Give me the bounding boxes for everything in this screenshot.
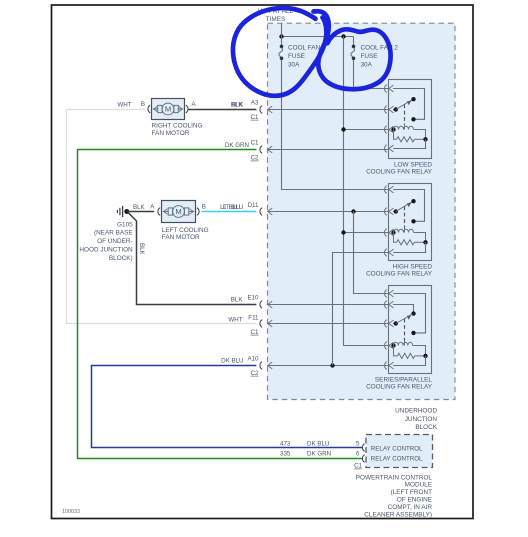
- wire DK BLU from A10 to PCM pin 5: [92, 366, 363, 448]
- relay K2 high speed: pin 4 connector and coil return: [385, 249, 387, 257]
- svg-text:F11: F11: [248, 314, 259, 321]
- relay K1 low speed: actuation dashed line: [404, 104, 406, 124]
- svg-text:FUSE: FUSE: [288, 53, 305, 60]
- svg-text:WHT: WHT: [228, 316, 242, 323]
- PCM pin 5 connector: [362, 444, 364, 452]
- svg-text:B: B: [141, 101, 145, 108]
- svg-text:LOW SPEED: LOW SPEED: [394, 161, 432, 168]
- wire: rail branch to high speed relay coil: [344, 232, 389, 234]
- wire: rail branch to low speed relay coil: [344, 129, 389, 131]
- svg-text:COMPT, IN AIR: COMPT, IN AIR: [388, 504, 433, 511]
- motor M1 right cooling fan: motor box: [152, 99, 185, 120]
- svg-text:JUNCTION: JUNCTION: [405, 416, 438, 423]
- wire: A10 to series/parallel pin 5: [268, 365, 389, 367]
- connector F11 (C1) white wire: [260, 320, 262, 328]
- svg-text:RELAY CONTROL: RELAY CONTROL: [371, 446, 423, 453]
- svg-text:SERIES/PARALLEL: SERIES/PARALLEL: [375, 376, 433, 383]
- svg-text:UNDERHOOD: UNDERHOOD: [395, 408, 437, 415]
- svg-text:RIGHT COOLING: RIGHT COOLING: [152, 123, 203, 130]
- svg-text:MODULE: MODULE: [405, 482, 432, 489]
- wire: D11 to high speed relay common: [268, 211, 389, 213]
- PCM pin 6 connector: [362, 455, 364, 463]
- connector E10 black wire: [260, 301, 262, 309]
- relay K3 series/parallel: pin 4 connector and relay coil: [385, 342, 387, 350]
- relay K3 series/parallel: pin 5 connector and coil return: [385, 362, 387, 370]
- svg-text:C1: C1: [354, 463, 362, 470]
- relay K3 series/parallel: relay box: [389, 286, 432, 374]
- connector A10 (C2) dark blue wire: [260, 362, 262, 370]
- svg-text:A10: A10: [247, 355, 259, 362]
- svg-text:DK GRN: DK GRN: [225, 142, 249, 149]
- svg-text:335: 335: [280, 451, 291, 458]
- connector A3 (C1) at junction block: [260, 106, 262, 114]
- relay K2 high speed: pin 3 connector and relay coil: [385, 229, 387, 237]
- svg-text:5: 5: [356, 441, 360, 448]
- relay K1 low speed: pin 2 connector, common and switch arm: [385, 106, 387, 114]
- relay K3 series/parallel: pin 3 connector, common and switch arm: [385, 320, 387, 328]
- bus wire (hot feed) across fuse tops: [282, 36, 354, 38]
- wire BLK right fan motor A to A3: [189, 109, 257, 111]
- wire: E10 to series/parallel pin 2: [268, 304, 389, 306]
- motor M1 right cooling fan: internal lead arrows: [153, 108, 158, 110]
- motor M1 right cooling fan: external connector halves: [148, 105, 150, 113]
- svg-text:FAN MOTOR: FAN MOTOR: [152, 130, 190, 137]
- fuse F2 COOL FAN 2 wire: [353, 37, 355, 45]
- svg-text:B: B: [202, 203, 206, 210]
- fuse F2 COOL FAN 2 FUSE 30A symbol: [352, 45, 356, 49]
- svg-text:COOLING FAN RELAY: COOLING FAN RELAY: [366, 271, 433, 278]
- svg-text:E10: E10: [247, 294, 259, 301]
- svg-text:HOOD JUNCTION: HOOD JUNCTION: [79, 247, 133, 254]
- wire: F11 to series/parallel common: [268, 323, 389, 325]
- svg-text:BLK: BLK: [133, 204, 146, 211]
- svg-text:CLEANER ASSEMBLY): CLEANER ASSEMBLY): [364, 511, 432, 518]
- underhood junction block (dashed outline): [268, 23, 456, 399]
- svg-text:473: 473: [280, 441, 291, 448]
- svg-text:OF ENGINE: OF ENGINE: [397, 497, 432, 504]
- ground G105 symbol: [124, 209, 129, 214]
- node: rail junction at low speed coil: [341, 127, 345, 131]
- powertrain control module box: [366, 435, 433, 468]
- relay K1 low speed: relay box: [389, 80, 432, 159]
- svg-text:OF UNDER-: OF UNDER-: [97, 238, 133, 245]
- svg-text:FUSE: FUSE: [361, 53, 378, 60]
- svg-text:(LEFT FRONT: (LEFT FRONT: [391, 489, 433, 496]
- node: fuse 1 feed junction: [279, 34, 283, 38]
- svg-text:RELAY CONTROL: RELAY CONTROL: [371, 456, 423, 463]
- svg-text:C2: C2: [251, 155, 259, 162]
- wire: relay coil supply rail: [344, 37, 389, 346]
- svg-text:C1: C1: [251, 329, 259, 336]
- node: coil supply rail junction: [341, 34, 345, 38]
- svg-text:BLOCK: BLOCK: [415, 424, 437, 431]
- relay K2 high speed: pin 1 connector and wire to fixed contact: [385, 186, 387, 194]
- svg-text:POWERTRAIN CONTROL: POWERTRAIN CONTROL: [356, 474, 433, 481]
- svg-text:DK BLU: DK BLU: [221, 357, 243, 364]
- wire: hot feed stub into junction block: [281, 24, 283, 37]
- node: rail junction at high speed coil: [341, 230, 345, 234]
- node: high speed coil return junction: [330, 363, 334, 367]
- motor M2 left cooling fan: external connector halves: [158, 208, 160, 216]
- relay K3 series/parallel: resistor across coil: [394, 346, 398, 356]
- relay K2 high speed: pin 2 connector, common and switch arm: [385, 208, 387, 216]
- svg-text:M: M: [175, 207, 181, 216]
- svg-text:FAN MOTOR: FAN MOTOR: [162, 234, 200, 241]
- wire DK GRN from C1/C2 to PCM pin 6: [78, 150, 363, 459]
- wire WH1 from right fan motor B terminal: [67, 110, 257, 324]
- connector D11 light blue wire: [260, 208, 262, 216]
- outer border frame: [52, 5, 474, 519]
- svg-text:A3: A3: [251, 99, 259, 106]
- svg-text:D11: D11: [248, 202, 259, 209]
- svg-text:BLK: BLK: [231, 296, 244, 303]
- svg-text:6: 6: [356, 451, 360, 458]
- fuse F1 COOL FAN 1 wire: [281, 37, 283, 45]
- fuse F1 COOL FAN 1 FUSE 30A symbol: [280, 45, 284, 49]
- svg-text:BLOCK): BLOCK): [109, 255, 133, 262]
- hand-drawn highlight loop around fuse 2: [314, 11, 391, 89]
- motor M1 right cooling fan: motor symbol M with brushes: [162, 103, 174, 115]
- svg-text:DK GRN: DK GRN: [307, 451, 331, 458]
- svg-text:TIMES: TIMES: [266, 16, 286, 23]
- relay K3 series/parallel: pin 1 connector and wire to lower fixed contact: [385, 290, 387, 298]
- svg-text:100033: 100033: [62, 509, 80, 515]
- wire BLK from G105 to left fan motor A: [127, 211, 154, 213]
- svg-text:M: M: [165, 105, 171, 114]
- wire: high speed relay coil return down to A10 wire: [333, 253, 389, 366]
- svg-text:DK BLU: DK BLU: [307, 441, 329, 448]
- svg-text:G105: G105: [117, 221, 133, 228]
- svg-text:WHT: WHT: [117, 101, 131, 108]
- svg-text:C1: C1: [251, 140, 259, 147]
- svg-text:BLK: BLK: [232, 101, 245, 108]
- svg-text:30A: 30A: [361, 62, 373, 69]
- svg-text:LT BLU: LT BLU: [223, 204, 243, 211]
- wire: A3 feed to low speed relay common: [268, 109, 389, 111]
- relay K3 series/parallel: actuation dashed line: [404, 319, 406, 341]
- relay K1 low speed: pin 3 connector and relay coil: [385, 126, 387, 134]
- relay K2 high speed: resistor across coil: [394, 233, 397, 243]
- wire: branch down to series/parallel relay pin 1: [354, 212, 389, 294]
- svg-text:30A: 30A: [288, 62, 300, 69]
- svg-text:COOL FAN 2: COOL FAN 2: [361, 44, 399, 51]
- wire: low speed relay coil return to C1/C2: [268, 149, 389, 151]
- motor M2 left cooling fan: motor box: [162, 201, 196, 223]
- motor M2 left cooling fan: internal lead arrows: [163, 211, 169, 213]
- relay K2 high speed: actuation dashed line: [404, 206, 406, 227]
- relay K1 low speed: resistor across coil: [394, 130, 397, 140]
- connector C1 (C2) dark green wire: [260, 146, 262, 154]
- relay K1 low speed: pin 4 connector and coil return: [385, 145, 387, 153]
- svg-text:C2: C2: [251, 370, 259, 377]
- wire BLK from G105 branch down to E10: [128, 213, 256, 305]
- svg-text:LEFT COOLING: LEFT COOLING: [162, 227, 209, 234]
- svg-text:C1: C1: [251, 114, 259, 121]
- svg-text:COOLING FAN RELAY: COOLING FAN RELAY: [366, 169, 433, 176]
- wire LT BLU from left fan motor B to D11: [202, 211, 257, 213]
- svg-text:(NEAR BASE: (NEAR BASE: [94, 230, 133, 237]
- svg-text:BLK: BLK: [138, 243, 145, 256]
- relay K1 low speed: pin 1 connector and wire to fixed contact: [385, 85, 387, 93]
- relay K2 high speed: relay box: [389, 184, 432, 261]
- motor M2 left cooling fan: motor symbol M with brushes: [173, 206, 185, 218]
- node: branch to series/parallel contact: [351, 209, 355, 213]
- hand-drawn highlight loop around fuse 1: [233, 8, 326, 96]
- relay K3 series/parallel: pin 2 connector and wire to upper contact: [385, 301, 387, 309]
- svg-text:HIGH SPEED: HIGH SPEED: [393, 263, 433, 270]
- svg-text:COOLING FAN RELAY: COOLING FAN RELAY: [366, 384, 433, 391]
